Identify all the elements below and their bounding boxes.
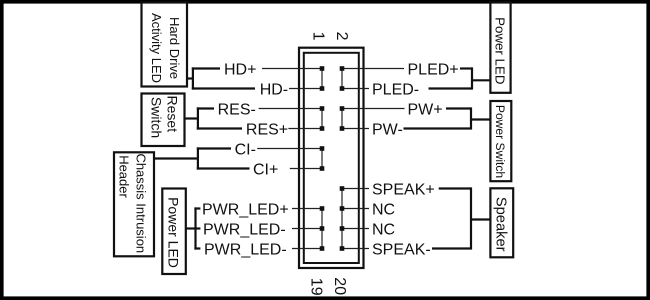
wire: HD- label to pin 3 [289,88,322,90]
wire: HD bracket vertical [192,67,194,89]
wire: Reset Switch box to RES bracket [185,117,198,119]
wire: pin 8 to PW- label [342,128,369,130]
svg-text:Chassis Intrusion: Chassis Intrusion [133,153,148,253]
wire: Chassis Intrusion Header box to CI bracket [154,157,198,159]
svg-text:2: 2 [333,32,350,41]
pin number label 1 [310,32,327,41]
label PW- [372,122,403,139]
pin number label 2 [333,32,350,41]
wire: pin 14 to SPEAK+ label [342,188,369,190]
wire: pin 20 to SPEAK- label [342,248,369,250]
label HD+ [224,62,256,79]
label PWR_LED- (row 9) [203,222,286,239]
wire: speaker bracket to Speaker box [471,218,490,220]
pin 9 [320,146,325,151]
label PLED+ [408,62,459,79]
wire: RES bracket to RES+ label [197,127,242,129]
wire: HD bracket to HD- label [192,87,255,89]
svg-text:Switch: Switch [149,97,165,138]
wire: CI+ label to pin 11 [290,168,322,170]
svg-text:NC: NC [372,222,395,239]
wire: CI bracket to CI- label [197,147,231,149]
label PWR_LED+ [202,202,289,219]
svg-text:CI+: CI+ [253,162,278,179]
wire: pin 4 to PLED- label [342,88,369,90]
svg-text:PLED+: PLED+ [408,62,459,79]
label PW+ [408,102,443,119]
label SPEAK- [372,242,431,259]
wire: PLED bracket vertical [471,67,473,89]
wire: HD+ label to pin 1 [262,68,322,70]
wire: pin 18 to NC label [342,228,369,230]
box: Reset Switch [142,94,185,147]
svg-text:CI-: CI- [235,142,256,159]
svg-text:SPEAK-: SPEAK- [372,242,431,259]
pin 15 [320,206,325,211]
wire: PWR_LED bracket stub to first PWR_LED- label [194,227,200,229]
svg-text:Hard Drive: Hard Drive [167,17,182,79]
pin 17 [320,226,325,231]
wire: PW bracket to Power Switch box [471,118,490,120]
pin 11 [320,166,325,171]
pin link: pins 5-7 [321,109,323,129]
pin link: pins 15-17-19 [321,209,323,249]
wire: PLED+ label to PLED bracket [460,67,472,69]
pin 6 [340,106,345,111]
label NC (row 9) [372,222,395,239]
wire: PW+ label to PW bracket [446,107,471,109]
svg-text:SPEAK+: SPEAK+ [372,182,435,199]
wire: pin 16 to NC label [342,208,369,210]
label HD- [260,82,288,99]
wire: pin 6 to PW+ label [342,108,405,110]
wire: CI bracket to CI+ label [197,167,250,169]
wire: PWR_LED- label to pin 17 [292,228,322,230]
label RES- [218,102,256,119]
wire: RES bracket vertical [197,107,199,129]
svg-text:Reset: Reset [165,96,181,133]
svg-text:Power LED: Power LED [493,17,508,84]
pin link: pins 2-4 [341,69,343,89]
wire: PW bracket vertical [470,107,472,129]
pin 18 [340,226,345,231]
wire: PWR_LED bracket vertical [194,207,196,249]
pin link: pins 1-3 [321,69,323,89]
svg-text:PW+: PW+ [408,102,443,119]
pin 8 [340,126,345,131]
label SPEAK+ [372,182,435,199]
svg-text:NC: NC [372,202,395,219]
pin 4 [340,86,345,91]
svg-text:Activity LED: Activity LED [149,13,164,83]
pin 3 [320,86,325,91]
label NC (row 8) [372,202,395,219]
pin link: pins 6-8 [341,109,343,129]
box: Power LED (left) [162,189,186,275]
svg-text:Power Switch: Power Switch [493,105,507,178]
wire: pin 2 to PLED+ label [342,68,404,70]
wire: Power LED (left) box to PWR_LED bracket [186,227,196,229]
svg-text:HD+: HD+ [224,62,256,79]
box: Speaker [490,188,513,257]
svg-text:20: 20 [331,277,348,295]
pin 2 [340,66,345,71]
svg-text:Power LED: Power LED [165,197,181,268]
pin 14 [340,186,345,191]
wire: PWR_LED- label to pin 19 [292,248,322,250]
svg-text:1: 1 [310,32,327,41]
wire: PWR_LED+ label to pin 15 [292,208,322,210]
wire: PWR_LED bracket stub to second PWR_LED- label [194,247,200,249]
connector J1 outer outline [299,48,364,268]
box: Chassis Intrusion Header [114,152,154,256]
label PWR_LED- (row 10) [204,242,287,259]
label CI- [235,142,256,159]
wire: PLED bracket to Power LED (right) box [472,79,490,81]
svg-text:19: 19 [308,278,325,296]
svg-text:PWR_LED-: PWR_LED- [203,222,286,239]
svg-text:PWR_LED+: PWR_LED+ [202,202,289,219]
svg-text:Header: Header [117,155,132,198]
wire: SPEAK+ label to speaker bracket [439,187,471,189]
wire: HD bracket to HD+ label [192,67,220,69]
svg-text:RES+: RES+ [246,122,288,139]
label CI+ [253,162,278,179]
pin number label 19 [308,278,325,296]
pin 1 [320,66,325,71]
wire: speaker bracket vertical [470,187,472,249]
connector J1 inner outline [304,53,359,263]
wire: SPEAK- label to speaker bracket [432,247,471,249]
svg-text:PWR_LED-: PWR_LED- [204,242,287,259]
box: Power LED (right) [490,3,510,93]
label RES+ [246,122,288,139]
wire: PLED- label to PLED bracket [429,87,473,89]
wire: RES- label to pin 5 [259,108,322,110]
pin link: pins 14-16-18-20 [341,189,343,249]
wire: RES+ label to pin 7 [288,128,322,130]
wire: CI- label to pin 9 [257,148,322,150]
pin 19 [320,246,325,251]
pin 20 [340,246,345,251]
pin 5 [320,106,325,111]
wire: Hard Drive Activity LED box to HD bracket [187,77,193,79]
pin 7 [320,126,325,131]
pin link: pins 9-11 [321,149,323,169]
label PLED- [372,82,419,99]
pin number label 20 [331,277,348,295]
wire: PW- label to PW bracket [404,127,472,129]
svg-text:Speaker: Speaker [492,197,508,252]
wire: PWR_LED bracket stub to PWR_LED+ label [194,207,200,209]
box: Power Switch [490,101,511,181]
svg-text:PLED-: PLED- [372,82,419,99]
wire: CI bracket vertical [197,147,199,169]
svg-text:HD-: HD- [260,82,288,99]
wire: RES bracket to RES- label [197,107,214,109]
box: Hard Drive Activity LED [142,3,188,87]
svg-text:PW-: PW- [372,122,403,139]
pin 16 [340,206,345,211]
svg-text:RES-: RES- [218,102,256,119]
